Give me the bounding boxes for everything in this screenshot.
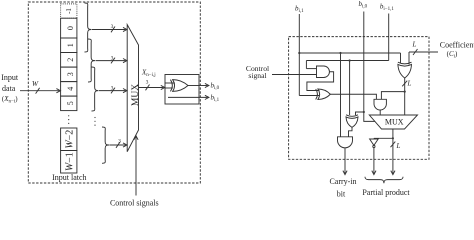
svg-text:MUX: MUX bbox=[131, 84, 141, 106]
svg-text:2: 2 bbox=[66, 58, 75, 62]
svg-text:bit: bit bbox=[337, 189, 346, 198]
svg-text:bi,1: bi,1 bbox=[211, 94, 220, 104]
svg-text:3: 3 bbox=[66, 72, 75, 76]
svg-text:(Ci): (Ci) bbox=[447, 50, 458, 60]
svg-text:3: 3 bbox=[118, 138, 121, 144]
svg-text:(Xn−i): (Xn−i) bbox=[2, 95, 18, 105]
svg-text:1: 1 bbox=[66, 43, 75, 47]
svg-text:W−1: W−1 bbox=[65, 152, 76, 171]
svg-text:L: L bbox=[412, 41, 417, 49]
svg-text:bi−1,1: bi−1,1 bbox=[380, 3, 394, 13]
svg-text:Partial product: Partial product bbox=[362, 188, 410, 197]
svg-text:MUX: MUX bbox=[385, 118, 404, 127]
svg-text:W−2: W−2 bbox=[65, 130, 76, 149]
svg-text:3: 3 bbox=[146, 80, 149, 86]
svg-text:4: 4 bbox=[66, 87, 75, 91]
svg-text:Input: Input bbox=[1, 73, 19, 82]
svg-text:Input latch: Input latch bbox=[52, 173, 86, 182]
svg-text:Xn−i,j: Xn−i,j bbox=[141, 68, 156, 78]
svg-text:0: 0 bbox=[66, 26, 75, 30]
svg-text:bi,0: bi,0 bbox=[211, 82, 220, 92]
svg-text:L: L bbox=[407, 80, 412, 88]
svg-text:3: 3 bbox=[111, 85, 114, 91]
svg-text:3: 3 bbox=[111, 24, 114, 30]
svg-text:bi,0: bi,0 bbox=[359, 0, 368, 10]
svg-text:Coefficient: Coefficient bbox=[440, 40, 474, 49]
svg-text:data: data bbox=[2, 84, 16, 93]
svg-text:5: 5 bbox=[66, 101, 75, 105]
svg-text:signal: signal bbox=[248, 71, 266, 80]
svg-text:Carry-in: Carry-in bbox=[329, 177, 356, 186]
svg-text:L: L bbox=[396, 142, 401, 150]
svg-text:Control signals: Control signals bbox=[110, 198, 159, 207]
svg-text:-1: -1 bbox=[65, 8, 73, 14]
svg-text:3: 3 bbox=[111, 55, 114, 61]
svg-text:W: W bbox=[32, 79, 39, 88]
svg-text:bi,1: bi,1 bbox=[295, 4, 304, 14]
